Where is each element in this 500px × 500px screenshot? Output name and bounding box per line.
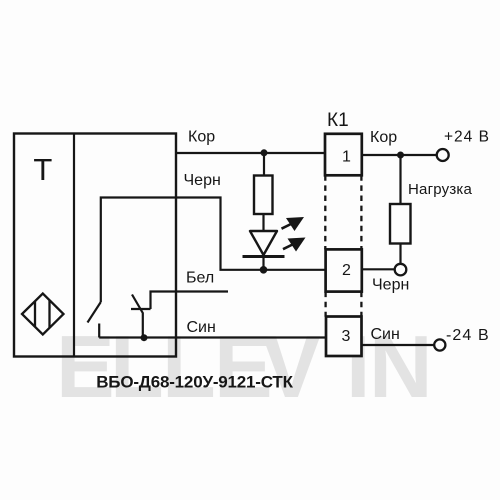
wire terminal 2 to output circle [362,268,395,270]
terminal circle +24 V [437,149,449,161]
sensor body divider line [73,134,75,357]
connector K1 dashed body right [360,175,362,316]
node: load tap [397,152,404,159]
switch SW1 blade (NO contact) [88,302,101,323]
switch SW2 blade (NC contact) [132,295,143,338]
switch SW2 crossbar [131,308,151,310]
LED emission arrow 1 [282,217,305,231]
svg-text:Син: Син [187,319,216,336]
node: switch SW2 junction on Син wire [141,334,148,341]
svg-text:+24 В: +24 В [444,129,490,146]
svg-text:ВБО-Д68-120У-9121-СТК: ВБО-Д68-120У-9121-СТК [96,373,293,392]
terminal 1 box [325,134,362,176]
optical sensing face symbol [22,294,64,335]
wire Кор (brown) from sensor to terminal 1 [176,152,326,154]
wire terminal 1 to +24 V [362,154,437,156]
wire Син (blue) from switch to terminal 3 [99,336,326,338]
sensor body box [14,134,176,357]
svg-text:2: 2 [342,262,351,279]
wire resistor drop [263,153,265,176]
svg-text:1: 1 [342,149,351,166]
wire resistor to LED [262,214,264,231]
svg-text:3: 3 [342,328,351,345]
svg-text:Нагрузка: Нагрузка [408,181,472,198]
LED emission arrow 2 [283,238,306,252]
svg-text:Кор: Кор [188,129,215,146]
load resistor Нагрузка [390,204,411,244]
svg-text:Т: Т [33,152,52,187]
LED VD1 triangle [250,231,277,255]
svg-text:К1: К1 [327,110,349,131]
switch SW1 lower contact stub [98,324,100,338]
node: LED cathode junction on Черн branch [260,266,268,274]
terminal circle output (Черн) [395,264,407,276]
svg-text:Черн: Черн [372,277,409,294]
svg-text:Син: Син [371,326,400,343]
connector K1 dashed body left [324,175,327,316]
terminal circle -24 V [434,339,445,350]
terminal 3 box [326,317,362,357]
svg-text:Кор: Кор [370,129,397,146]
wire terminal 3 to -24 V [362,344,435,346]
resistor R1 [254,176,273,215]
svg-text:-24 В: -24 В [446,327,490,344]
wire load drop [399,155,401,204]
svg-text:Бел: Бел [186,270,214,287]
wire LED cathode down [262,256,264,270]
terminal 2 box [326,249,362,291]
wire Черн (black) net [101,198,326,303]
node: resistor tap on Кор wire [261,149,268,156]
wire load to output terminal [399,244,401,265]
LED cathode bar [243,255,285,258]
svg-text:Черн: Черн [184,172,221,189]
wire Бел (white) stub [151,292,229,310]
